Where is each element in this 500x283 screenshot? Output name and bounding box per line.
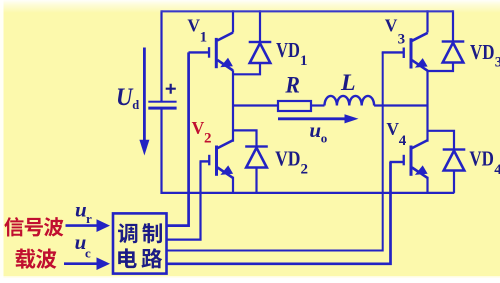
- wire: inductor to node B: [374, 104, 427, 106]
- svg-text:L: L: [340, 70, 356, 96]
- input arrow uc: [64, 262, 98, 265]
- wire: load line node A to resistor: [233, 104, 278, 106]
- wire: V3 collector to top rail: [426, 10, 428, 32]
- V1 gate lead: [189, 51, 210, 53]
- svg-text:R: R: [284, 73, 300, 99]
- gate wire V1 to modulator: [166, 52, 189, 225]
- diode VD1: [259, 10, 261, 42]
- wire: node A down to V2 collector: [232, 106, 234, 142]
- svg-text:VD: VD: [469, 147, 494, 171]
- wire: V1 collector to top rail: [232, 10, 234, 32]
- svg-text:3: 3: [398, 32, 406, 48]
- diode VD4: [427, 131, 455, 150]
- transistor V3 (IGBT): [403, 33, 428, 71]
- svg-text:V: V: [192, 118, 205, 138]
- svg-text:V: V: [385, 16, 398, 36]
- svg-text:3: 3: [495, 55, 500, 71]
- svg-text:4: 4: [494, 162, 500, 178]
- svg-text:2: 2: [301, 162, 309, 178]
- capacitor + polarity sign: [166, 84, 176, 94]
- capacitor C top plate: [148, 101, 176, 103]
- V4 gate lead: [390, 161, 405, 163]
- wire: V3 emitter down to load node B: [426, 70, 428, 105]
- label 载波 (carrier wave, red): [15, 249, 35, 269]
- svg-text:d: d: [132, 98, 139, 112]
- svg-text:o: o: [321, 131, 328, 146]
- svg-text:VD: VD: [470, 40, 495, 64]
- diode VD3: [452, 10, 454, 41]
- wire: V4 emitter to bottom rail: [426, 177, 428, 193]
- inductor L (4 humps): [325, 96, 375, 106]
- svg-text:u: u: [309, 118, 321, 142]
- transistor V1 (IGBT): [208, 33, 233, 71]
- label 电路: [118, 248, 137, 268]
- modulation circuit box U1: [113, 213, 167, 273]
- svg-text:c: c: [85, 245, 91, 260]
- wire: node B down to V4 collector: [426, 106, 428, 142]
- svg-text:u: u: [75, 197, 87, 221]
- diode VD2: [232, 130, 257, 146]
- label 调制: [118, 223, 137, 243]
- V3 gate lead: [382, 51, 404, 53]
- bottom rail (DC bus -): [162, 192, 455, 194]
- Ud voltage arrow: [143, 48, 146, 142]
- svg-text:V: V: [386, 119, 399, 139]
- svg-text:4: 4: [399, 133, 407, 149]
- capacitor branch wire bottom: [160, 109, 162, 195]
- transistor V2 (IGBT): [208, 140, 233, 178]
- gate wire V4 to modulator: [166, 162, 391, 264]
- resistor R: [278, 101, 311, 111]
- top rail (DC bus +): [162, 10, 454, 12]
- wire: resistor to inductor: [311, 104, 325, 106]
- transistor V4 (IGBT): [403, 140, 428, 178]
- uo output arrow: [278, 117, 346, 120]
- input arrow ur: [66, 224, 98, 227]
- wire: V2 emitter to bottom rail: [232, 177, 234, 193]
- capacitor branch wire top: [160, 10, 162, 101]
- svg-text:1: 1: [200, 29, 208, 45]
- svg-text:VD: VD: [275, 146, 300, 170]
- svg-text:r: r: [86, 211, 92, 226]
- svg-text:1: 1: [300, 53, 308, 69]
- gate wire V3 to modulator: [166, 52, 383, 250]
- svg-text:V: V: [187, 16, 200, 36]
- capacitor C bottom plate: [148, 107, 176, 110]
- gate wire V2 to modulator: [166, 161, 201, 239]
- svg-text:VD: VD: [276, 38, 300, 62]
- label 信号波 (signal wave, red): [4, 217, 23, 236]
- V2 gate lead: [200, 160, 210, 162]
- wire: V1 emitter down to load node A: [232, 70, 234, 105]
- svg-text:2: 2: [204, 131, 212, 147]
